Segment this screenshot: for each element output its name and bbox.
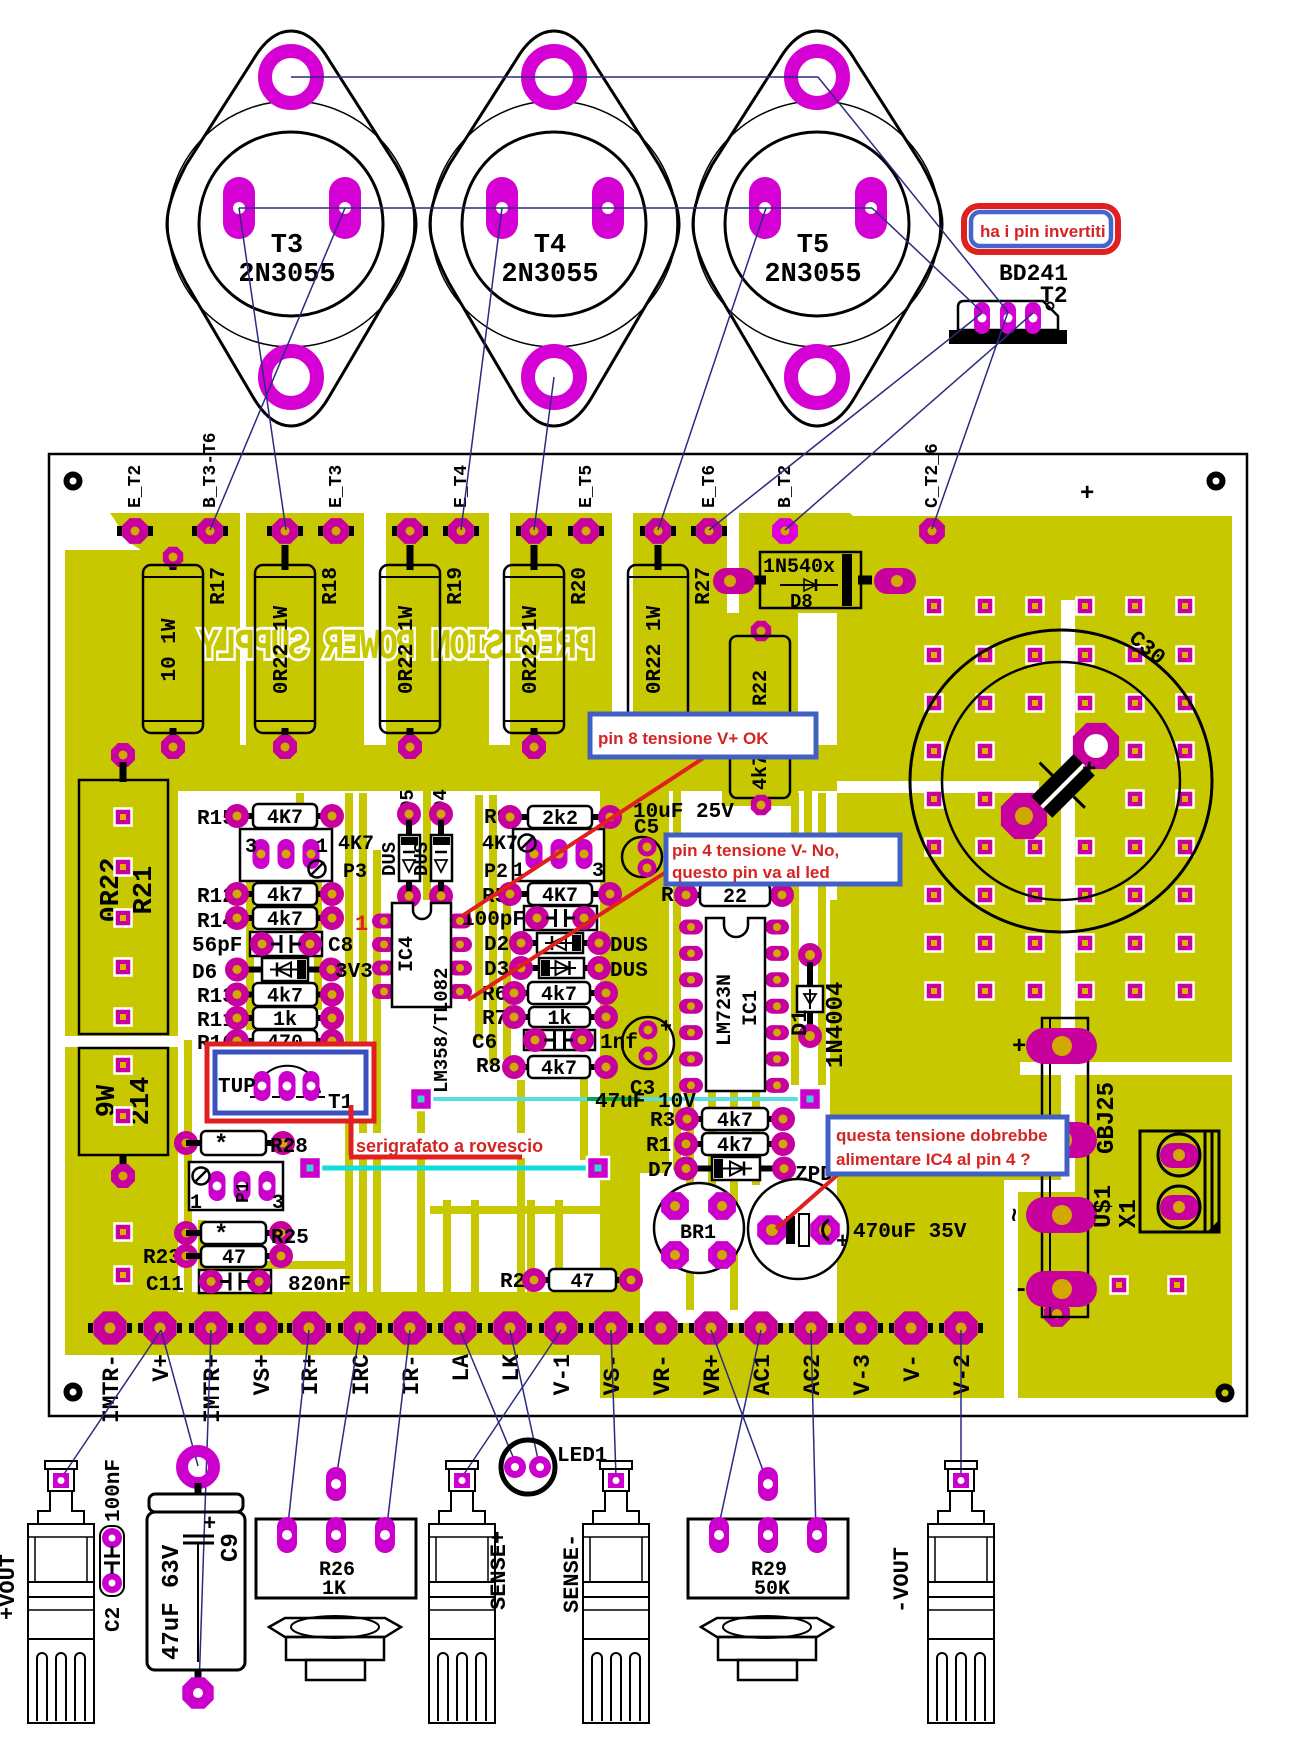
node B_T3-T6 — [197, 518, 223, 544]
svg-text:1: 1 — [355, 912, 368, 937]
svg-text:+: + — [1082, 757, 1096, 784]
wire — [199, 1330, 211, 1688]
svg-text:+VOUT: +VOUT — [0, 1554, 21, 1620]
node VR+ — [694, 1311, 727, 1344]
svg-text:pin 4 tensione V- No,: pin 4 tensione V- No, — [672, 841, 839, 860]
wire — [287, 1330, 309, 1534]
wire — [872, 208, 982, 312]
wire — [239, 208, 286, 530]
highlight trace cyan net — [320, 1166, 590, 1171]
callout ha i pin invertiti — [964, 206, 1118, 252]
wire — [534, 377, 554, 530]
node VS- — [594, 1311, 627, 1344]
svg-text:+: + — [203, 1512, 216, 1537]
node VS+ — [244, 1311, 277, 1344]
svg-text:4k7: 4k7 — [541, 984, 577, 1007]
callout questa tensione — [828, 1117, 1067, 1174]
svg-text:E_T2: E_T2 — [126, 465, 146, 508]
resistor R17 — [170, 555, 177, 570]
resistor R25 — [174, 1221, 198, 1245]
svg-text:+: + — [836, 1230, 849, 1255]
svg-text:1k: 1k — [273, 1009, 297, 1032]
svg-text:DUS: DUS — [379, 842, 401, 876]
svg-text:B_T2: B_T2 — [776, 465, 796, 508]
svg-text:D7: D7 — [648, 1160, 673, 1183]
node pad — [397, 518, 423, 544]
svg-text:R22: R22 — [750, 670, 773, 706]
svg-text:4k7: 4k7 — [717, 1135, 753, 1158]
svg-text:TUP: TUP — [218, 1076, 256, 1099]
resistor R22 4k7 — [751, 621, 771, 641]
wire — [611, 1330, 616, 1477]
svg-text:3V3: 3V3 — [335, 961, 373, 984]
svg-text:D8: D8 — [790, 591, 813, 613]
wire — [210, 208, 345, 530]
potentiometer R26 1K — [256, 1519, 416, 1598]
potentiometer R29 50K — [688, 1519, 848, 1598]
svg-text:C2: C2 — [103, 1607, 126, 1632]
svg-text:D3: D3 — [484, 959, 509, 982]
svg-text:3: 3 — [592, 860, 604, 883]
capacitor C2 100nF — [100, 1526, 124, 1596]
svg-text:4k7: 4k7 — [267, 909, 303, 932]
red annotation line to IC4 pin 4 — [468, 872, 666, 1000]
svg-text:LED1: LED1 — [557, 1445, 607, 1468]
node E_T6 — [696, 518, 722, 544]
terminal block X1 — [1140, 1131, 1219, 1232]
svg-text:V-2: V-2 — [950, 1354, 976, 1395]
svg-text:VS+: VS+ — [250, 1354, 276, 1395]
svg-text:1K: 1K — [322, 1578, 346, 1601]
svg-text:3: 3 — [272, 1192, 284, 1215]
svg-text:~: ~ — [1003, 1208, 1030, 1222]
svg-text:+: + — [1080, 481, 1094, 508]
svg-text:R18: R18 — [320, 567, 343, 605]
wire — [386, 1330, 410, 1534]
svg-text:R19: R19 — [445, 567, 468, 605]
svg-text:T3: T3 — [271, 231, 303, 261]
node LK — [493, 1311, 526, 1344]
svg-text:2N3055: 2N3055 — [501, 260, 598, 290]
svg-text:-VOUT: -VOUT — [890, 1547, 915, 1613]
resistor R28 — [174, 1131, 198, 1155]
svg-text:2N3055: 2N3055 — [764, 260, 861, 290]
diode D1 1N4004 — [798, 943, 822, 967]
svg-text:T4: T4 — [534, 231, 566, 261]
capacitor C9 47uF 63V — [182, 1451, 214, 1483]
svg-text:22: 22 — [723, 886, 747, 909]
callout pin 8 tensione V+ OK — [590, 714, 816, 757]
node IMTR- — [93, 1311, 126, 1344]
svg-text:47: 47 — [570, 1271, 594, 1294]
svg-text:+: + — [660, 1016, 672, 1039]
mounting hole — [67, 1386, 80, 1399]
callout pin 4 tensione V- — [666, 835, 900, 884]
transistor T4 2N3055 — [430, 31, 679, 426]
trimmer P1 — [189, 1162, 283, 1210]
resistor R21 — [111, 743, 135, 767]
svg-text:LM723N: LM723N — [714, 974, 737, 1046]
node IR- — [393, 1311, 426, 1344]
svg-text:SENSE+: SENSE+ — [487, 1531, 512, 1610]
wire — [291, 76, 818, 78]
wire — [932, 312, 1008, 529]
svg-text:DUS: DUS — [610, 960, 648, 983]
svg-text:4K7: 4K7 — [338, 833, 374, 856]
transistor T1 TUP with highlight box — [207, 1044, 374, 1121]
svg-text:47: 47 — [222, 1247, 246, 1270]
PCB board outline — [49, 454, 1247, 1416]
svg-text:R20: R20 — [569, 567, 592, 605]
svg-text:1: 1 — [316, 836, 328, 859]
wire — [785, 313, 1033, 530]
svg-text:R27: R27 — [693, 567, 716, 605]
svg-text:R21: R21 — [130, 866, 160, 915]
svg-text:+: + — [1012, 1034, 1026, 1061]
resistor R18 — [282, 545, 289, 570]
svg-text:D1: D1 — [788, 1010, 813, 1036]
capacitor C30 — [910, 626, 1212, 932]
wire — [709, 313, 982, 530]
wire — [60, 1330, 161, 1480]
node V-3 — [844, 1311, 877, 1344]
node E_T4 — [448, 518, 474, 544]
svg-text:B_T3-T6: B_T3-T6 — [201, 432, 221, 508]
wire — [462, 1330, 561, 1477]
svg-text:V-: V- — [900, 1354, 926, 1382]
red annotation line to C10 — [776, 1170, 843, 1229]
op-amp IC4 LM358/TL082 — [372, 914, 396, 929]
red annotation line to IC4 pin 8 — [462, 757, 705, 916]
binding post SENSE+ — [446, 1461, 478, 1469]
via grid — [926, 598, 1194, 1294]
svg-text:C11: C11 — [146, 1274, 184, 1297]
svg-text:D2: D2 — [484, 934, 509, 957]
svg-text:questo pin va al led: questo pin va al led — [672, 863, 830, 882]
svg-text:56pF: 56pF — [192, 935, 242, 958]
svg-text:V-1: V-1 — [550, 1354, 576, 1395]
svg-text:4k7: 4k7 — [267, 885, 303, 908]
svg-text:1nf: 1nf — [600, 1032, 638, 1055]
binding post SENSE- — [600, 1461, 632, 1469]
node IRC — [343, 1311, 376, 1344]
svg-text:3: 3 — [245, 836, 257, 859]
svg-text:ha i pin invertiti: ha i pin invertiti — [980, 222, 1106, 241]
svg-text:questa tensione dobrebbe: questa tensione dobrebbe — [836, 1126, 1048, 1145]
wire — [460, 1330, 516, 1464]
pour isolation channels (white) — [65, 600, 1232, 1398]
wire — [818, 77, 1008, 312]
svg-text:1: 1 — [190, 1192, 202, 1215]
svg-text:E_T6: E_T6 — [700, 465, 720, 508]
svg-text:IC4: IC4 — [396, 936, 419, 972]
mounting hole — [1210, 475, 1223, 488]
svg-text:4K7: 4K7 — [542, 885, 578, 908]
svg-text:DUS: DUS — [610, 935, 648, 958]
svg-text:0R22 1W: 0R22 1W — [271, 605, 294, 694]
svg-text:47uF 63V: 47uF 63V — [159, 1544, 186, 1660]
node C_T2_6 — [919, 518, 945, 544]
svg-text:*: * — [214, 1132, 228, 1159]
annotation serigrafato a rovescio — [349, 1105, 354, 1155]
svg-text:820nF: 820nF — [288, 1274, 351, 1297]
svg-text:470uF 35V: 470uF 35V — [853, 1221, 967, 1244]
svg-text:R1: R1 — [646, 1135, 671, 1158]
transistor T3 2N3055 — [167, 31, 416, 426]
svg-text:GBJ25: GBJ25 — [1094, 1082, 1121, 1154]
node VR- — [644, 1311, 677, 1344]
svg-text:1k: 1k — [547, 1008, 571, 1031]
mounting hole — [1219, 1387, 1232, 1400]
svg-text:U$1: U$1 — [1091, 1185, 1118, 1228]
svg-text:C8: C8 — [328, 935, 353, 958]
wire — [960, 1330, 962, 1474]
svg-text:VR-: VR- — [650, 1354, 676, 1395]
svg-text:0R22 1W: 0R22 1W — [396, 605, 419, 694]
svg-text:4k7: 4k7 — [717, 1110, 753, 1133]
svg-text:IC1: IC1 — [740, 990, 763, 1026]
svg-text:R28: R28 — [270, 1136, 308, 1159]
svg-text:P3: P3 — [343, 861, 367, 884]
svg-text:R17: R17 — [208, 567, 231, 605]
binding post +VOUT — [45, 1461, 77, 1469]
svg-text:50K: 50K — [754, 1578, 790, 1601]
diode D8 1N540x — [760, 552, 861, 608]
svg-text:P2: P2 — [484, 861, 508, 884]
trimmer P3 — [240, 829, 332, 881]
node pad — [272, 518, 298, 544]
mirrored silkscreen title PRECISION POWER SUPPLY — [198, 623, 595, 672]
rectifier U$1 GBJ25 — [1042, 1018, 1088, 1317]
svg-text:LM358/TL082: LM358/TL082 — [431, 968, 453, 1093]
capacitor C3 47uF 10V — [622, 1017, 674, 1069]
svg-text:4K7: 4K7 — [482, 833, 518, 856]
binding post -VOUT — [945, 1461, 977, 1469]
copper traces in routing area — [188, 745, 834, 1310]
node AC2 — [794, 1311, 827, 1344]
svg-text:10 1W: 10 1W — [159, 618, 182, 681]
resistor R20 — [531, 545, 538, 570]
regulator IC1 LM723N — [679, 920, 703, 935]
svg-text:100pF: 100pF — [462, 909, 525, 932]
mounting hole — [67, 475, 80, 488]
highlight trace 47uF 10V net — [431, 1097, 587, 1101]
node V-1 — [544, 1311, 577, 1344]
svg-text:pin 8 tensione V+ OK: pin 8 tensione V+ OK — [598, 729, 769, 748]
node V-2 — [944, 1311, 977, 1344]
svg-text:2k2: 2k2 — [542, 808, 578, 831]
svg-text:SENSE-: SENSE- — [560, 1534, 585, 1613]
node E_T5 — [573, 518, 599, 544]
node LA — [443, 1311, 476, 1344]
LED1 — [501, 1440, 555, 1494]
node IMTR+ — [194, 1311, 227, 1344]
resistor 9W 214 — [79, 1048, 168, 1155]
wire — [658, 208, 766, 530]
wire — [161, 1330, 198, 1466]
svg-text:1N540x: 1N540x — [763, 556, 835, 579]
svg-text:0R22 1W: 0R22 1W — [644, 605, 667, 694]
resistor R27 — [655, 545, 662, 570]
node E_T2 — [122, 518, 148, 544]
svg-text:1N4004: 1N4004 — [823, 982, 850, 1068]
svg-text:4k7: 4k7 — [267, 985, 303, 1008]
svg-text:C_T2_6: C_T2_6 — [923, 443, 943, 508]
svg-text:BR1: BR1 — [680, 1222, 716, 1245]
svg-text:C9: C9 — [218, 1533, 245, 1562]
node E_T3 — [323, 518, 349, 544]
via pads left column — [115, 809, 132, 1284]
svg-text:serigrafato a rovescio: serigrafato a rovescio — [356, 1136, 543, 1156]
node pad extra bottom right — [1044, 1301, 1070, 1327]
svg-text:E_T3: E_T3 — [327, 465, 347, 508]
node V+ — [143, 1311, 176, 1344]
svg-text:DUS: DUS — [411, 842, 433, 876]
svg-text:V-3: V-3 — [850, 1354, 876, 1395]
bridge BR1 — [654, 1183, 744, 1273]
node V- — [894, 1311, 927, 1344]
wire — [711, 1330, 768, 1484]
wire — [461, 208, 502, 530]
node IR+ — [292, 1311, 325, 1344]
wire — [239, 207, 872, 209]
node pad — [645, 518, 671, 544]
svg-text:IMTR+: IMTR+ — [200, 1354, 226, 1423]
svg-text:D6: D6 — [192, 962, 217, 985]
svg-text:T5: T5 — [797, 231, 829, 261]
wire — [717, 1330, 761, 1534]
resistor R19 — [407, 545, 414, 570]
wire — [510, 1330, 539, 1464]
capacitor C10 470uF 35V — [748, 1179, 848, 1279]
svg-text:0R22 1W: 0R22 1W — [520, 605, 543, 694]
svg-text:E_T5: E_T5 — [577, 465, 597, 508]
node pad — [521, 518, 547, 544]
svg-text:C6: C6 — [472, 1032, 497, 1055]
wire — [811, 1330, 816, 1534]
copper pour yellow regions — [65, 513, 1232, 1398]
svg-text:4k7: 4k7 — [541, 1058, 577, 1081]
wire — [335, 1330, 360, 1485]
trimmer P2 — [513, 829, 604, 881]
svg-text:P1: P1 — [234, 1181, 254, 1203]
node AC1 — [744, 1311, 777, 1344]
svg-text:alimentare IC4 al pin 4 ?: alimentare IC4 al pin 4 ? — [836, 1150, 1031, 1169]
svg-text:100nF: 100nF — [103, 1459, 126, 1522]
svg-text:-: - — [1014, 1277, 1028, 1304]
transistor T5 2N3055 — [693, 31, 942, 426]
node B_T2 — [772, 518, 798, 544]
svg-text:4K7: 4K7 — [267, 807, 303, 830]
svg-text:LK: LK — [499, 1354, 525, 1382]
svg-text:R8: R8 — [476, 1056, 501, 1079]
